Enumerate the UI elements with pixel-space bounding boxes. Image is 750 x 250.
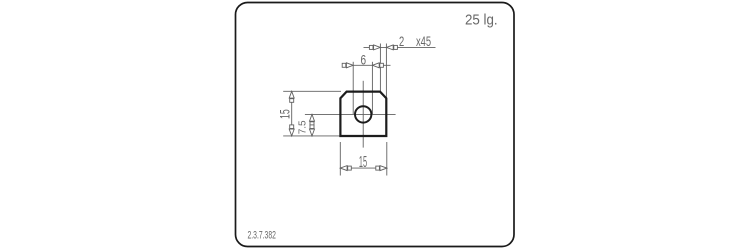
svg-text:15: 15 — [277, 109, 293, 119]
svg-text:7.5: 7.5 — [298, 120, 309, 134]
svg-text:2: 2 — [399, 33, 405, 49]
svg-text:2.3.7.382: 2.3.7.382 — [248, 229, 276, 241]
svg-text:6: 6 — [361, 52, 367, 68]
svg-text:25 lg.: 25 lg. — [465, 12, 498, 29]
svg-text:15: 15 — [359, 153, 367, 171]
svg-text:x45: x45 — [416, 33, 431, 49]
